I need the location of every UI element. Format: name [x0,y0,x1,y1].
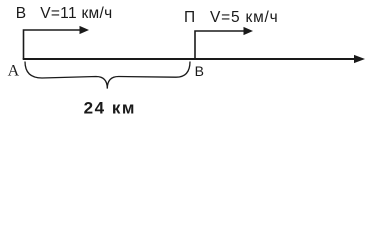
svg-text:V=5 км/ч: V=5 км/ч [210,9,279,26]
wire left mover path [24,30,81,59]
main road line [23,58,356,60]
wire right mover path [195,31,245,59]
arrowhead right mover [244,27,254,35]
arrowhead main road [354,55,365,63]
brace 24 km [25,62,190,89]
svg-text:В: В [16,5,26,22]
svg-text:В: В [195,63,204,79]
svg-text:V=11 км/ч: V=11 км/ч [40,5,112,22]
arrowhead left mover [80,26,90,34]
svg-text:А: А [8,63,20,80]
svg-text:П: П [184,9,195,26]
svg-text:24 км: 24 км [84,99,136,118]
